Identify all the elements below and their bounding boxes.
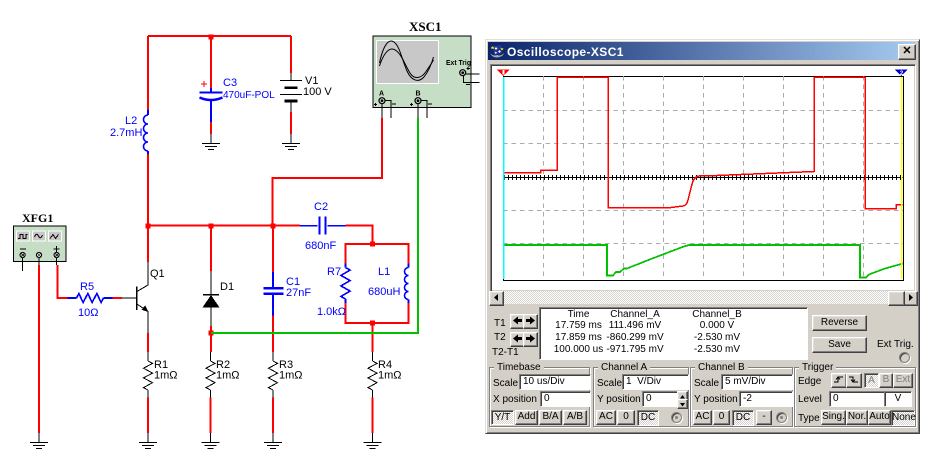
svg-text:1mΩ: 1mΩ	[378, 370, 402, 382]
node tank top	[370, 242, 375, 247]
horizontal scrollbar	[489, 291, 916, 304]
node D1/green	[209, 331, 214, 336]
wire: main bus	[148, 225, 300, 227]
axis ticks	[505, 175, 901, 180]
svg-text:B: B	[416, 91, 421, 98]
svg-text:R7: R7	[327, 266, 341, 278]
svg-text:D1: D1	[220, 281, 234, 293]
inductor L2	[147, 110, 149, 115]
wire: XSC1 A probe (red)	[273, 118, 383, 227]
capacitor C3	[210, 36, 212, 88]
node bus/C1/XSC1-A	[271, 224, 276, 229]
cursor 2 blue triangle marker	[895, 70, 908, 77]
channel B green trace	[503, 245, 903, 278]
node bus/L2/Q1	[146, 224, 151, 229]
wire: XFG1 common to ground	[38, 258, 40, 265]
resistor R4	[372, 352, 374, 361]
scope display sunken panel	[490, 64, 916, 292]
scrollbar thumb	[888, 291, 905, 306]
Channel A group	[593, 367, 689, 427]
svg-text:R4: R4	[378, 359, 392, 371]
ground (R2)	[210, 433, 212, 443]
wire: top rail	[148, 35, 291, 37]
ground (R1)	[147, 433, 149, 443]
wire: XSC1 B probe (green)	[211, 118, 418, 333]
diode D1	[210, 271, 212, 295]
svg-text:V1: V1	[305, 75, 318, 87]
ground (V1)	[290, 134, 292, 144]
title bar	[488, 42, 915, 60]
inductor L1	[408, 264, 410, 268]
title text	[507, 45, 624, 59]
svg-text:680uH: 680uH	[368, 286, 400, 298]
wire: R3 to ground	[272, 398, 274, 434]
ground (C3)	[210, 134, 212, 144]
scope display border	[503, 76, 904, 281]
svg-text:XSC1: XSC1	[409, 19, 442, 34]
svg-text:R3: R3	[279, 359, 293, 371]
svg-text:A: A	[379, 91, 384, 98]
svg-text:C2: C2	[314, 201, 328, 213]
wire: C2 to tank box	[346, 225, 373, 244]
resistor R3	[272, 352, 274, 361]
resistor R2	[210, 352, 212, 361]
ground (R4)	[372, 433, 374, 443]
svg-text:1mΩ: 1mΩ	[279, 370, 303, 382]
node tank bottom	[370, 321, 375, 326]
cursor 1 cyan line	[503, 77, 505, 279]
svg-text:1.0kΩ: 1.0kΩ	[317, 306, 346, 318]
wire: R1 to ground	[147, 398, 149, 434]
svg-text:XFG1: XFG1	[22, 211, 53, 225]
svg-text:R1: R1	[154, 359, 168, 371]
ground (R3)	[272, 433, 274, 443]
wire: R4 to ground	[372, 398, 374, 434]
ground (XFG1)	[38, 433, 40, 443]
wire: left vertical upper (to L2)	[147, 36, 149, 110]
svg-text:680nF: 680nF	[305, 240, 336, 252]
node bus/D1	[209, 224, 214, 229]
svg-text:27nF: 27nF	[286, 287, 311, 299]
svg-text:R2: R2	[216, 359, 230, 371]
svg-text:470uF-POL: 470uF-POL	[223, 90, 275, 101]
wire: V1 to ground	[290, 112, 292, 134]
svg-text:100 V: 100 V	[303, 86, 332, 98]
readout white panel	[539, 307, 808, 360]
oscilloscope window XSC1 frame	[485, 39, 920, 434]
resistor R1	[147, 352, 149, 361]
svg-text:1mΩ: 1mΩ	[216, 370, 240, 382]
wire: bus to Q1 collector	[147, 226, 149, 263]
wire: bus to D1	[210, 226, 212, 272]
svg-text:Ext Trig: Ext Trig	[446, 60, 471, 67]
svg-text:L1: L1	[378, 266, 390, 278]
svg-text:1mΩ: 1mΩ	[154, 370, 178, 382]
wire: XFG1 minus stub	[22, 258, 24, 271]
wire: XFG1 plus to R5	[56, 258, 58, 265]
capacitor C2	[300, 225, 318, 227]
cursor 2 yellow line	[901, 77, 903, 279]
wire: C3 to ground	[210, 122, 212, 134]
scope grid	[503, 76, 903, 280]
Channel B group	[690, 367, 793, 427]
scope axis	[503, 177, 903, 179]
resistor R5	[68, 297, 77, 299]
channel A red trace	[503, 77, 903, 209]
resistor R7	[345, 264, 347, 268]
transistor Q1	[137, 262, 148, 292]
wire: left vertical lower (L2 to bus)	[147, 154, 149, 227]
capacitor C1	[272, 272, 274, 287]
svg-text:C3: C3	[223, 77, 237, 89]
wire: C1 down to R3	[272, 316, 274, 353]
wire: tank bottom to R4	[372, 323, 374, 352]
wire: R5 to Q1 base	[113, 297, 123, 299]
node junction top rail / C3	[209, 35, 214, 40]
svg-text:10Ω: 10Ω	[78, 307, 98, 319]
svg-text:2.7mH: 2.7mH	[110, 127, 142, 139]
wire: D1 to R2 with green tap node	[210, 326, 212, 352]
svg-text:C1: C1	[286, 276, 300, 288]
Trigger group	[794, 367, 916, 427]
svg-text:R5: R5	[80, 281, 94, 293]
tank box wires (R7 L1 parallel)	[346, 243, 409, 324]
wire: bus to C1	[272, 226, 274, 273]
close button	[898, 44, 916, 60]
Timebase group	[489, 367, 590, 427]
wire: Q1 emitter to R1	[147, 333, 149, 352]
svg-text:Q1: Q1	[150, 268, 165, 280]
battery V1	[290, 36, 292, 73]
svg-text:L2: L2	[125, 115, 137, 127]
title bar icon	[489, 43, 505, 59]
wire: R2 to ground	[210, 398, 212, 434]
cursor 1 red triangle marker	[497, 70, 510, 77]
